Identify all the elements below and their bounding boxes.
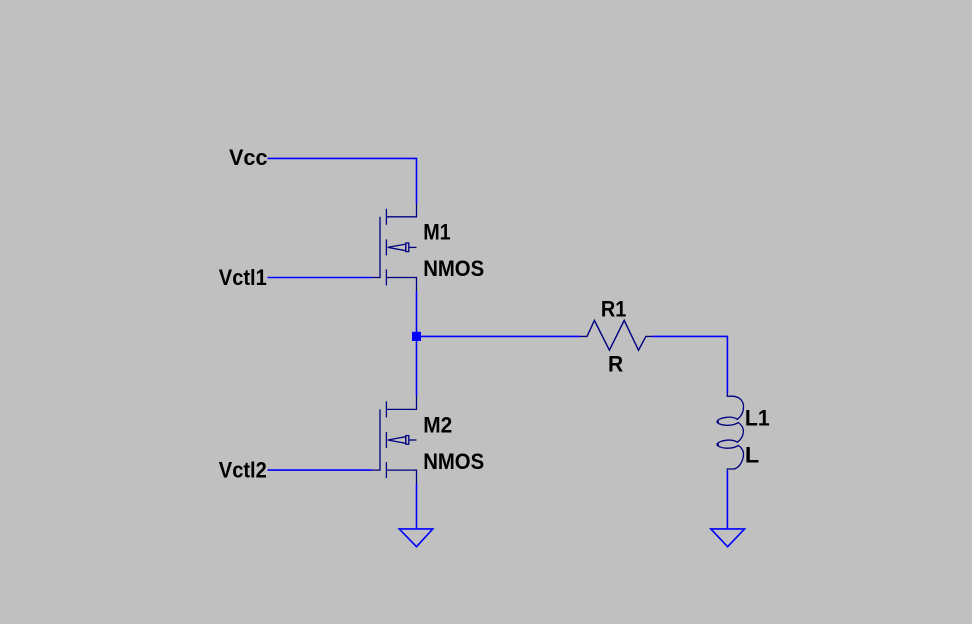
ground at L1 [711,529,745,547]
junction node A [412,332,421,341]
wire Vcc to M1 drain [268,158,417,203]
svg-text:NMOS: NMOS [423,256,484,281]
transistor M2 [372,396,417,484]
wire M2 source to ground [416,484,418,529]
wire Vctl1 to M1 gate [268,277,373,279]
svg-text:R: R [608,352,623,377]
ground at M2 source [399,529,433,547]
svg-text:R1: R1 [601,297,627,322]
inductor L1 [717,393,744,471]
svg-text:Vcc: Vcc [229,145,268,170]
svg-text:Vctl2: Vctl2 [219,458,267,483]
wire Vctl2 to M2 gate [268,469,373,471]
svg-text:L: L [745,442,759,467]
svg-text:M1: M1 [423,219,451,244]
svg-text:L1: L1 [745,406,770,431]
transistor M1 [372,204,417,292]
wire node A to M2 drain [416,341,418,396]
wire node A to R1 [421,335,580,337]
wire R1 to L1 [652,336,727,393]
svg-text:NMOS: NMOS [423,449,484,474]
wire L1 to ground [726,471,728,529]
svg-text:M2: M2 [423,413,452,438]
svg-text:Vctl1: Vctl1 [219,265,267,290]
wire M1 source to node A [416,291,418,332]
resistor R1 [580,320,652,350]
